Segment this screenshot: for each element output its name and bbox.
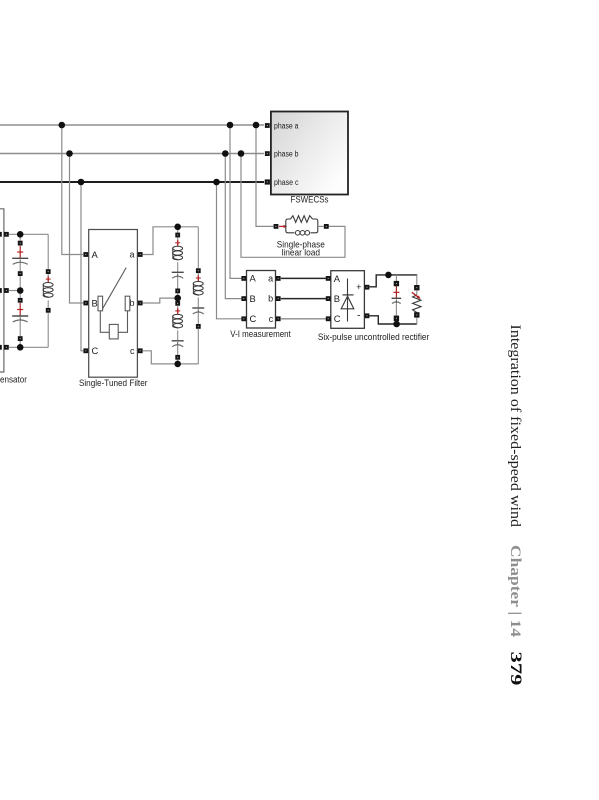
svg-text:phase a: phase a (274, 121, 299, 130)
wire V-I b to rectifier B (281, 298, 328, 300)
label Single-phase (277, 239, 325, 249)
capacitor C-comp-1 (12, 234, 28, 290)
wire phase-c to filter C (81, 182, 83, 351)
port V-I c (276, 316, 281, 321)
node phase-a / load tap (253, 122, 260, 129)
svg-text:379: 379 (507, 652, 524, 686)
breaker contact right (125, 296, 130, 311)
pin label B (334, 293, 340, 304)
svg-text:C: C (92, 345, 99, 356)
label compensator (0, 375, 27, 385)
node phase-b / filter tap (66, 150, 73, 157)
port load right (324, 224, 329, 229)
page header Chapter | 14 (507, 545, 523, 637)
wire filter c to LC bottom (143, 351, 199, 364)
svg-text:V-I measurement: V-I measurement (230, 329, 291, 339)
port compensator 1 (4, 232, 9, 237)
wire filter a to LC top (143, 227, 199, 255)
port rectifier + (365, 285, 370, 290)
svg-text:c: c (130, 346, 135, 356)
port V-I C (241, 316, 246, 321)
node phase-a / filter tap (59, 122, 66, 129)
wire compensator mid (9, 290, 20, 292)
breaker coil box (109, 324, 118, 339)
svg-text:A: A (92, 249, 99, 260)
pin label A (92, 249, 99, 260)
inductor L-comp (43, 234, 53, 347)
capacitor C-ab (172, 262, 184, 298)
svg-text:b: b (268, 294, 273, 304)
RL load R1 L1 parallel (286, 216, 318, 235)
svg-text:phase c: phase c (274, 178, 299, 187)
node phase-b / load return tap (238, 150, 245, 157)
node phase-c / filter tap (78, 179, 85, 186)
svg-text:ensator: ensator (0, 375, 27, 385)
pin label B (92, 297, 98, 308)
port FSWECSs phase b (265, 151, 270, 156)
port FSWECSs phase a (265, 123, 270, 128)
node DC+ junction (385, 272, 392, 279)
pin label A (334, 273, 341, 284)
wire contact right to coil (118, 311, 127, 333)
node comp bottom (17, 344, 24, 351)
node DC- junction (393, 321, 400, 328)
svg-text:Integration of fixed-speed win: Integration of fixed-speed wind (507, 325, 524, 528)
pin label B (250, 293, 256, 304)
port compensator 2 (4, 288, 9, 293)
svg-text:B: B (250, 293, 256, 304)
port load left (274, 224, 279, 229)
wire phase-b bus (0, 153, 264, 155)
node phase-b / V-I tap (222, 150, 229, 157)
svg-text:B: B (92, 297, 98, 308)
wire filter b to LC mid (143, 298, 175, 303)
wire contact left to coil (100, 311, 109, 333)
wire phase-b to V-I B (225, 154, 244, 299)
port filter c (138, 348, 143, 353)
label Six-pulse uncontrolled rectifier (318, 332, 430, 342)
signal arrow load (279, 225, 287, 228)
wire compensator bottom (9, 346, 48, 348)
block rectifier (331, 271, 365, 329)
svg-text:Six-pulse uncontrolled rectifi: Six-pulse uncontrolled rectifier (318, 332, 430, 342)
pin label C (250, 313, 257, 324)
wire phase-a bus (0, 124, 264, 126)
svg-text:FSWECSs: FSWECSs (291, 193, 329, 204)
pin label c (130, 346, 135, 356)
subsystem FSWECSs (271, 112, 348, 195)
wire phase-a to load (256, 125, 274, 226)
port compensator 3 (4, 345, 9, 350)
pin label C (334, 313, 341, 324)
svg-text:+: + (356, 282, 361, 292)
node phase-c / V-I tap (213, 179, 220, 186)
svg-text:C: C (334, 313, 341, 324)
port rectifier - (365, 313, 370, 318)
svg-text:a: a (129, 250, 134, 260)
port V-I A (241, 276, 246, 281)
pin label - (357, 310, 361, 322)
svg-text:phase b: phase b (274, 149, 299, 158)
wire rectifier + to DC bus (370, 275, 418, 287)
capacitor C-bc (172, 330, 184, 364)
wire phase-c bus (0, 181, 264, 183)
pin label C (92, 345, 99, 356)
node comp top (17, 231, 24, 238)
node LC mid (174, 295, 181, 302)
port compensator 1 inner (0, 232, 2, 237)
port filter B (83, 301, 88, 306)
label Single-Tuned Filter (79, 377, 148, 388)
pin label b (268, 294, 273, 304)
svg-text:Single-Tuned Filter: Single-Tuned Filter (79, 377, 148, 388)
svg-text:a: a (268, 274, 273, 284)
wire phase-a to V-I A (230, 125, 244, 278)
wire rectifier - to DC return (370, 316, 417, 324)
port filter a (138, 252, 143, 257)
wire phase-b to filter B (70, 154, 84, 304)
block V-I measurement (247, 271, 276, 329)
block Single-Tuned Filter (89, 230, 138, 378)
svg-text:c: c (269, 314, 274, 324)
pin label phase a (274, 121, 299, 130)
svg-text:-: - (357, 310, 361, 322)
breaker contact left (98, 296, 103, 311)
port rectifier C (326, 316, 331, 321)
pin label a (129, 250, 134, 260)
breaker blade (102, 268, 127, 311)
pin label A (250, 273, 257, 284)
pin label a (268, 274, 273, 284)
wire phase-a to filter A (62, 125, 83, 255)
label linear load (282, 247, 321, 257)
label FSWECSs (291, 193, 329, 204)
svg-text:Chapter | 14: Chapter | 14 (507, 545, 523, 637)
node LC top (174, 224, 181, 231)
port compensator 2 inner (0, 288, 2, 293)
port filter C (83, 348, 88, 353)
page number 379 (507, 652, 524, 686)
port V-I B (241, 296, 246, 301)
wire load to right port (318, 225, 324, 227)
label V-I measurement (230, 329, 291, 339)
port V-I a (276, 276, 281, 281)
page header Integration of fixed-speed wind (507, 325, 524, 528)
svg-text:linear load: linear load (282, 247, 321, 257)
port compensator 3 inner (0, 345, 2, 350)
port rectifier A (326, 276, 331, 281)
port filter b (138, 301, 143, 306)
port filter A (83, 252, 88, 257)
wire load return to phase-b (241, 154, 345, 258)
inductor L-bc (173, 301, 183, 329)
port V-I b (276, 296, 281, 301)
wire V-I c to rectifier C (281, 318, 328, 320)
wire compensator top (9, 233, 48, 235)
pin label b (129, 298, 134, 308)
wire phase-c to V-I C (217, 182, 244, 319)
node LC bottom (174, 361, 181, 368)
inductor L-ac (193, 227, 203, 296)
node phase-a / V-I tap (227, 122, 234, 129)
svg-text:A: A (250, 273, 257, 284)
diode D1 (341, 279, 354, 322)
svg-text:C: C (250, 313, 257, 324)
node comp mid (17, 287, 24, 294)
capacitor C-dc (392, 275, 402, 324)
port rectifier B (326, 296, 331, 301)
port FSWECSs phase c (265, 179, 270, 184)
resistor R-dc (412, 275, 421, 324)
inductor L-ab (173, 227, 183, 261)
capacitor C-ac (192, 298, 204, 364)
svg-text:A: A (334, 273, 341, 284)
pin label phase c (274, 178, 299, 187)
wire V-I a to rectifier A (281, 277, 328, 279)
pin label c (269, 314, 274, 324)
pin label + (356, 282, 361, 292)
pin label phase b (274, 149, 299, 158)
capacitor C-comp-2 (12, 291, 28, 348)
block compensator edge (0, 209, 4, 372)
svg-text:B: B (334, 293, 340, 304)
